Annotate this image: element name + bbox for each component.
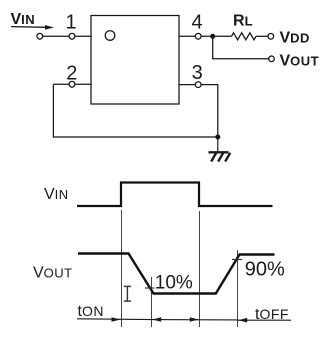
svg-text:VOUT: VOUT [33,265,73,282]
extension line at 10% point [151,277,153,327]
svg-text:VIN: VIN [44,186,69,203]
wire left of pin2 [53,83,69,85]
extension line at VIN rising edge [121,210,123,327]
wire pin1 to box [75,35,91,37]
svg-text:10%: 10% [155,273,193,294]
svg-text:tOFF: tOFF [255,306,289,323]
wire junction down to VOUT [213,36,269,59]
pin 1 circle [69,33,75,39]
pin1 marker circle inside box [105,31,115,41]
resistor RL zigzag [232,33,257,40]
extension line at 90% point [237,250,239,327]
dimension leader tON with arrow [77,317,152,322]
arrow VIN input [11,25,54,30]
pin 3 circle [195,82,201,88]
IC box U1 [91,16,179,105]
dimension leader tOFF with arrow [238,318,291,323]
svg-text:3: 3 [192,62,203,84]
wire resistor to VDD terminal [256,35,268,37]
junction node dot [210,34,215,39]
90% tick mark [232,259,242,261]
svg-text:4: 4 [191,11,202,33]
10% tick mark [145,287,155,289]
wire pin3 right and down to ground rail [201,85,218,137]
input terminal circle [37,33,43,39]
wire pin4 to resistor [201,35,232,37]
svg-text:VIN: VIN [11,11,36,28]
wire pin2 left-down-bottom ground rail [53,84,217,137]
ground junction dot [215,135,220,140]
svg-text:VDD: VDD [280,30,310,47]
wire box to pin3 [179,84,196,86]
svg-text:RL: RL [233,12,253,29]
wire input to pin1 [43,35,70,37]
ground symbol [209,137,231,162]
waveform VOUT [78,254,275,294]
pin 4 circle [195,33,201,39]
extension line at VIN falling edge [199,211,201,327]
label VIN (schematic input) [11,11,36,28]
VOUT terminal circle [269,56,275,62]
wire box to pin4 [179,35,196,37]
mouse I-beam cursor artifact [124,286,131,301]
svg-text:tON: tON [78,303,104,320]
VDD terminal circle [268,34,274,40]
wire pin2 to box [75,83,91,85]
svg-text:VOUT: VOUT [280,52,320,69]
dimension line between 10% and VIN fall with outward arrows [152,317,238,322]
svg-text:90%: 90% [245,259,285,281]
waveform VIN pulse [77,183,273,207]
svg-text:1: 1 [65,11,76,33]
pin 2 circle [69,81,75,87]
